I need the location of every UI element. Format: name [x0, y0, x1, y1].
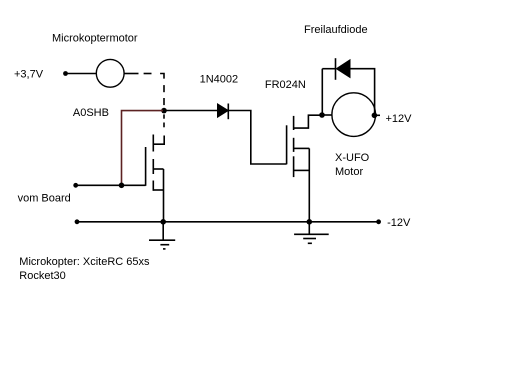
wire dashed motor M1 to node A: [144, 74, 164, 106]
junction Q1 source on rail: [160, 219, 166, 225]
wire Q2 source down to rail: [308, 148, 310, 222]
svg-text:Microkopter: XciteRC 65xs: Microkopter: XciteRC 65xs: [19, 256, 150, 268]
node +12V terminal: [372, 113, 378, 119]
svg-text:1N4002: 1N4002: [200, 74, 239, 86]
diode D1 1N4002: [218, 104, 229, 120]
wire +3,7V terminal to motor M1: [66, 73, 97, 75]
node C junction Q2 drain diode motor: [319, 112, 325, 118]
wire node C up to diode D2: [321, 69, 323, 115]
svg-text:Microkoptermotor: Microkoptermotor: [52, 33, 138, 45]
ground GND1: [149, 240, 175, 249]
junction Q2 source on rail: [307, 219, 313, 225]
wire diode D2 left segment: [322, 68, 335, 70]
node rail terminal left: [75, 219, 80, 224]
svg-text:+3,7V: +3,7V: [14, 69, 44, 81]
svg-text:Freilaufdiode: Freilaufdiode: [304, 24, 368, 36]
wire ground rail: [77, 221, 379, 223]
node vom Board terminal: [73, 183, 78, 188]
wire node C to motor M2 left edge: [322, 114, 332, 116]
motor M1 Microkoptermotor: [96, 59, 124, 87]
transistor Q1 A0SHB: [146, 135, 165, 191]
node -12V terminal: [376, 219, 381, 224]
ground GND2: [294, 234, 329, 243]
transistor Q2 FR024N: [287, 115, 322, 177]
wire node A to diode D1 anode: [164, 110, 218, 112]
wire diode D2 right segment and down to motor M2: [350, 69, 375, 115]
diode D2 Freilaufdiode: [336, 58, 351, 80]
svg-text:Rocket30: Rocket30: [19, 270, 65, 282]
wire motor M1 right solid stub: [124, 73, 138, 75]
svg-text:-12V: -12V: [387, 217, 411, 229]
wire vom Board to Q1 gate: [76, 184, 146, 186]
svg-text:vom Board: vom Board: [18, 193, 71, 205]
wire maroon node A to Q1 gate wire: [122, 111, 164, 186]
wire ground stub GND2: [308, 222, 310, 235]
wire dashed node A down to Q1 drain: [163, 114, 165, 127]
svg-text:FR024N: FR024N: [265, 79, 306, 91]
node A junction: [161, 108, 167, 114]
motor M2 X-UFO: [332, 93, 376, 137]
wire Q1 source down to rail: [163, 169, 165, 222]
svg-text:A0SHB: A0SHB: [73, 107, 109, 119]
wire +12V stub: [374, 114, 380, 116]
svg-text:Motor: Motor: [335, 166, 363, 178]
wire ground stub GND1: [162, 222, 164, 240]
svg-text:+12V: +12V: [386, 113, 413, 125]
node +3,7V terminal: [63, 71, 68, 76]
wire D1 cathode to Q2 gate: [228, 111, 286, 165]
node B junction maroon meets gate wire: [119, 183, 125, 189]
svg-text:X-UFO: X-UFO: [335, 152, 370, 164]
